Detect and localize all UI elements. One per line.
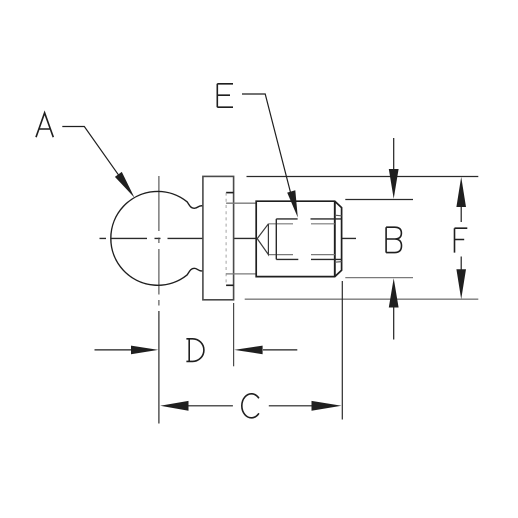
dimension C left arrow (160, 401, 188, 411)
label B (386, 227, 401, 252)
dimension F bottom arrow (460, 257, 462, 273)
washer groove section top edge (226, 202, 256, 204)
pilot hole line bottom (268, 254, 334, 256)
label A (36, 113, 53, 137)
thread end line (275, 219, 277, 260)
hidden boss line (dashed vertical) (225, 193, 227, 286)
pilot hole line top (268, 223, 334, 225)
ball A (sphere with neck) (111, 191, 203, 285)
label D (186, 339, 204, 362)
threaded body outline (256, 201, 341, 276)
dimension C right arrow (312, 401, 342, 411)
extension line body bottom (B) (345, 277, 413, 279)
flange (203, 176, 234, 299)
arrowhead E (287, 190, 298, 217)
extension line ball center vertical (D,C) (158, 311, 160, 424)
dimension D line right (263, 349, 297, 351)
extension line flange right vertical (D) (233, 303, 235, 366)
internal thread major line top (276, 218, 341, 220)
chamfer line at body end (334, 201, 336, 276)
extension line flange bottom (F) (245, 298, 479, 300)
dimension D right arrow (234, 346, 262, 355)
extension line body end vertical (C) (341, 281, 343, 420)
leader A (62, 127, 130, 192)
horizontal centerline (100, 237, 357, 239)
extension line flange top (F) (247, 176, 479, 178)
dimension D left arrow (131, 346, 158, 355)
notch step bottom (boss edge) (226, 284, 234, 286)
dimension C line (189, 405, 312, 407)
drill cone (257, 224, 268, 255)
internal thread major line bottom (276, 258, 341, 260)
washer groove section bottom edge (226, 273, 256, 275)
face countersink bottom (335, 261, 342, 264)
vertical centerline of ball (158, 176, 160, 306)
arrowhead A (115, 172, 135, 198)
label C (242, 394, 259, 418)
label F (455, 228, 468, 252)
notch step top (boss edge) (226, 192, 234, 194)
leader E (242, 94, 294, 206)
face countersink top (335, 214, 342, 217)
dimension D line left (95, 349, 132, 351)
dimension B bottom arrow (393, 305, 395, 340)
dimension F top arrow (460, 205, 462, 222)
dimension B top arrow (393, 138, 395, 170)
extension line body top (B) (345, 199, 413, 201)
label E (217, 84, 233, 107)
